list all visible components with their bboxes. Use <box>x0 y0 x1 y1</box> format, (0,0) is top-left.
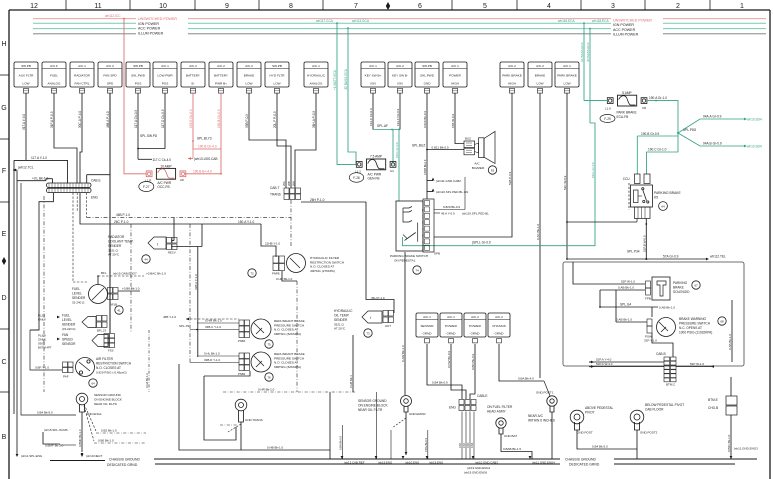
svg-text:33B.D Y-1.0: 33B.D Y-1.0 <box>204 358 220 362</box>
svg-text:53B P-0.9: 53B P-0.9 <box>508 171 512 185</box>
svg-text:1: 1 <box>740 3 744 10</box>
hydraulic filter restriction switch <box>248 224 344 277</box>
svg-text:IGN: IGN <box>397 82 403 86</box>
wire gnd b1 <box>427 344 462 399</box>
svg-text:GRND: GRND <box>494 332 504 336</box>
connector CABLE ENG <box>449 394 487 411</box>
fuse block box 4 FAN SPD SPD <box>98 62 122 93</box>
label 117.A Y-1.0 <box>31 156 47 160</box>
svg-text:0.HA Bk-1.0: 0.HA Bk-1.0 <box>145 373 149 388</box>
svg-text:7: 7 <box>354 3 358 10</box>
buzzer feed wire <box>427 145 464 149</box>
svg-text:0.929 PSIG (-0.45psG): 0.929 PSIG (-0.45psG) <box>96 371 127 375</box>
splice SPL.AF teal <box>373 124 400 164</box>
svg-text:ENG: ENG <box>91 196 98 200</box>
svg-text:ANALOG: ANALOG <box>48 82 61 86</box>
SPB pin wires <box>434 177 489 216</box>
svg-text:SPL.G4: SPL.G4 <box>620 303 631 307</box>
svg-text:GEN-FB: GEN-FB <box>368 177 380 181</box>
wire b3 radiator <box>78 93 82 183</box>
arrow sh111.GND.CAB2 <box>427 178 461 184</box>
svg-text:A/C.2: A/C.2 <box>471 315 479 319</box>
teal bus tap labels right <box>558 19 609 23</box>
svg-text:L1.K: L1.K <box>605 106 611 110</box>
svg-text:0.AC Bk-1.0: 0.AC Bk-1.0 <box>536 223 540 240</box>
fuel level sender PL23 <box>38 314 107 333</box>
svg-text:FAN SPD: FAN SPD <box>103 74 117 78</box>
svg-text:10 AMP: 10 AMP <box>160 164 171 168</box>
svg-text:SW_PWD: SW_PWD <box>131 74 146 78</box>
svg-text:FAN: FAN <box>62 333 69 337</box>
svg-text:PIVOT: PIVOT <box>585 411 595 415</box>
dash vline x131 <box>130 224 132 333</box>
fuel sender labels <box>97 271 166 277</box>
wire 0.AB to PSW <box>616 290 647 322</box>
parking brake solenoid <box>645 277 670 301</box>
connector CAB.E / ENG <box>47 179 101 200</box>
fuse block box 3 RADIATOR FAN CTRL <box>70 62 94 93</box>
svg-text:B-: B- <box>191 82 194 86</box>
wire b5 sw-pwd <box>134 93 138 159</box>
svg-text:HYDRAULIC: HYDRAULIC <box>307 74 326 78</box>
svg-text:F: F <box>2 168 6 175</box>
wire b1 aux-fltr <box>14 93 68 414</box>
wire to ground x370 <box>339 392 428 459</box>
ground ring GND.BAT <box>487 405 532 459</box>
svg-text:B: B <box>2 434 7 441</box>
svg-text:117.C Ck-4.0: 117.C Ck-4.0 <box>153 158 172 162</box>
svg-text:POWER: POWER <box>469 324 481 328</box>
svg-text:(sh11.SPL.ENG: (sh11.SPL.ENG <box>21 454 43 458</box>
svg-text:SPL.BLY3: SPL.BLY3 <box>197 137 212 141</box>
ground box A/C.2 POWER GRND <box>464 313 486 343</box>
svg-text:KEY SW B+: KEY SW B+ <box>365 74 382 78</box>
svg-text:LOW PWR: LOW PWR <box>157 74 173 78</box>
wire wh12.TCL rail <box>13 166 34 455</box>
svg-text:11: 11 <box>94 3 101 10</box>
fuse block box 1 AUX FLTR LOW <box>14 62 38 93</box>
svg-text:SENSOR GROUND: SENSOR GROUND <box>94 393 122 397</box>
svg-text:NEAR OIL FILTR: NEAR OIL FILTR <box>94 402 118 406</box>
wire 0.B61 to ground <box>727 377 758 459</box>
svg-text:wh116.ECA: wh116.ECA <box>558 19 575 23</box>
teal wire to SPB <box>395 129 400 201</box>
wire labels into CAB.T <box>282 181 296 186</box>
svg-text:A4: A4 <box>390 169 394 173</box>
teal branch wh10.SD4 upper <box>678 115 762 134</box>
svg-text:SW.PB: SW.PB <box>422 64 432 68</box>
wire 0.B4 Bk-5.0 <box>577 430 637 459</box>
wire 0.HB ground run <box>179 364 330 459</box>
wire 26H P-1.0 <box>301 198 394 313</box>
wire gnd b3 <box>470 344 475 399</box>
svg-text:PRESSURE SWITCH: PRESSURE SWITCH <box>679 322 711 326</box>
svg-text:(sh10.GND.CAB3: (sh10.GND.CAB3 <box>475 461 498 465</box>
svg-text:52C W-0.9: 52C W-0.9 <box>563 175 567 190</box>
svg-text:52P.B W-0.9: 52P.B W-0.9 <box>642 235 646 252</box>
svg-text:ILLUM POWER: ILLUM POWER <box>613 33 639 37</box>
svg-text:BATTERY: BATTERY <box>186 74 200 78</box>
svg-text:BTM.C: BTM.C <box>666 383 676 387</box>
teal wire to splice P8G <box>677 100 679 133</box>
svg-text:A/C.2: A/C.2 <box>508 64 516 68</box>
svg-text:DEDICATED GRND: DEDICATED GRND <box>569 463 600 467</box>
svg-text:SENSOR GROUND: SENSOR GROUND <box>358 399 387 403</box>
fuse block box 15 POWER HIGH <box>443 62 467 93</box>
svg-text:(sh110.SPL.PED.BL.GN: (sh110.SPL.PED.BL.GN <box>436 190 468 194</box>
svg-text:0.AB Bk-1.0: 0.AB Bk-1.0 <box>728 334 732 350</box>
svg-text:GND.POST1: GND.POST1 <box>536 391 554 395</box>
svg-text:ONLY: ONLY <box>38 318 46 322</box>
svg-text:GND.BAT: GND.BAT <box>504 434 517 438</box>
svg-text:PNB2: PNB2 <box>238 372 246 376</box>
svg-text:67: 67 <box>694 284 698 288</box>
svg-text:+1 BATT-ECA: +1 BATT-ECA <box>333 69 337 90</box>
svg-text:SPL.BUZ: SPL.BUZ <box>412 144 425 148</box>
svg-text:190.L Gr-0.9: 190.L Gr-0.9 <box>395 142 399 158</box>
svg-text:wh118.ECA: wh118.ECA <box>592 19 609 23</box>
boundary box right <box>563 262 744 366</box>
svg-text:31T.A Y-9.0: 31T.A Y-9.0 <box>22 114 26 130</box>
dash wire 46B P-1.0 <box>87 213 291 217</box>
wire 0.HR below switch <box>276 271 297 392</box>
svg-text:GND: GND <box>424 82 432 86</box>
ground ring GND.POST1 near A/C <box>528 381 557 459</box>
svg-text:SW.PB: SW.PB <box>133 64 143 68</box>
svg-text:wh10.SD4: wh10.SD4 <box>747 145 762 149</box>
svg-text:75: 75 <box>267 343 271 347</box>
svg-text:193.C Ck-0.9: 193.C Ck-0.9 <box>369 108 373 126</box>
wire b16 park-brake-high <box>434 93 512 237</box>
fuse block box 10 HYD FLTR LOW <box>265 62 289 93</box>
svg-text:(sh15.OAB.ENG7: (sh15.OAB.ENG7 <box>113 272 137 276</box>
svg-text:68: 68 <box>720 320 724 324</box>
svg-text:BATTERY: BATTERY <box>214 74 228 78</box>
svg-text:t: t <box>157 243 158 247</box>
teal drop wh113.GCA <box>344 28 356 164</box>
svg-text:0.AB Bk-1.0: 0.AB Bk-1.0 <box>616 318 632 322</box>
svg-text:LOW: LOW <box>273 82 280 86</box>
grid column labels top <box>30 0 744 10</box>
svg-text:CHASSIS GROUND: CHASSIS GROUND <box>109 458 140 462</box>
svg-text:BELOW PEDESTAL PIVOT: BELOW PEDESTAL PIVOT <box>645 403 684 407</box>
svg-text:2: 2 <box>676 3 680 10</box>
brake warning pressure switch <box>645 318 676 339</box>
svg-text:SPL.X9: SPL.X9 <box>179 324 190 328</box>
svg-text:BFL.23: BFL.23 <box>97 329 106 333</box>
svg-text:FUEL: FUEL <box>72 287 80 291</box>
fuse block box 11 HYDRAULIC ANALOG <box>304 62 328 93</box>
svg-text:PWR B+: PWR B+ <box>215 82 227 86</box>
redundant brake pressure switch PNB2 <box>238 352 305 381</box>
svg-text:UNSWITCHED POWER: UNSWITCHED POWER <box>613 19 652 23</box>
svg-text:(sh10.ENG: (sh10.ENG <box>405 461 420 465</box>
wire 0.B4 Bk-9.0 <box>21 183 76 415</box>
svg-text:wh117.CCA: wh117.CCA <box>316 19 334 23</box>
unswitched power bus (red) <box>33 18 766 20</box>
svg-text:AUX FLTR: AUX FLTR <box>19 74 34 78</box>
fan speed sensor <box>38 333 115 353</box>
wire 33B.A vertical <box>194 247 198 358</box>
svg-text:LEVEL: LEVEL <box>62 318 72 322</box>
wire relay to b18 net <box>566 219 637 223</box>
svg-text:ON FUEL FILTER: ON FUEL FILTER <box>487 405 513 409</box>
svg-text:F-29: F-29 <box>604 117 611 121</box>
svg-text:FUEL: FUEL <box>62 314 70 318</box>
svg-text:PARKING BRAKE: PARKING BRAKE <box>654 191 681 195</box>
svg-text:IGN POWER: IGN POWER <box>138 22 159 26</box>
svg-text:A/C.1: A/C.1 <box>423 315 431 319</box>
svg-text:A/C.2: A/C.2 <box>245 64 253 68</box>
svg-text:0.B4 Bk-0.9: 0.B4 Bk-0.9 <box>432 381 448 385</box>
svg-text:TRANS: TRANS <box>270 193 281 197</box>
svg-text:0.BJ: 0.BJ <box>463 442 466 448</box>
wire b4 fan-spd <box>87 93 110 333</box>
wire 15B.A / 26C <box>80 193 261 224</box>
svg-text:PAF: PAF <box>63 375 69 379</box>
svg-text:193.E Ck-0.9: 193.E Ck-0.9 <box>189 109 193 128</box>
svg-text:F-26: F-26 <box>353 176 360 180</box>
svg-text:488.A P-4.0: 488.A P-4.0 <box>106 111 110 128</box>
svg-text:LOW: LOW <box>536 82 543 86</box>
svg-text:SPEED: SPEED <box>62 338 74 342</box>
svg-text:0.BH Bk-0.9: 0.BH Bk-0.9 <box>339 435 343 450</box>
wire b10 hyd-fltr <box>273 93 291 188</box>
svg-text:FPB: FPB <box>645 297 651 301</box>
svg-text:CAB.E: CAB.E <box>91 179 101 183</box>
air filter restriction switch <box>30 330 132 387</box>
svg-text:0.HL Bk-1.0: 0.HL Bk-1.0 <box>204 352 220 356</box>
svg-text:33B.C Y-1.0: 33B.C Y-1.0 <box>205 325 221 329</box>
svg-text:RADIATOR: RADIATOR <box>74 74 90 78</box>
wire b12 key-sw-b+ <box>369 93 373 130</box>
svg-text:CHASSIS GROUND: CHASSIS GROUND <box>565 458 596 462</box>
svg-text:0.B2 Bk-1.0: 0.B2 Bk-1.0 <box>101 429 117 433</box>
wire gnd b4 chassis <box>499 344 544 381</box>
svg-text:64: 64 <box>661 205 665 209</box>
svg-text:PARKING: PARKING <box>673 281 688 285</box>
svg-text:wh113.GCA: wh113.GCA <box>352 19 370 23</box>
teal drop A1-BASS-ECA <box>580 22 585 100</box>
svg-text:CABLE: CABLE <box>477 394 487 398</box>
svg-text:SENDER: SENDER <box>108 244 122 248</box>
connector CAB.B / BTM.C <box>656 352 676 387</box>
fuse block box 18 PARK BRAKE LOW <box>555 62 579 93</box>
svg-text:190.L Gr-0.9: 190.L Gr-0.9 <box>591 162 595 178</box>
svg-text:SPB: SPB <box>434 252 440 256</box>
svg-text:0.821 Bk-0.9: 0.821 Bk-0.9 <box>432 145 449 149</box>
svg-text:GND.ENG1: GND.ENG1 <box>86 412 102 416</box>
svg-text:SENDER: SENDER <box>72 296 86 300</box>
offpage arrow wh13.USS.CAB <box>188 149 218 161</box>
svg-text:BRAKE: BRAKE <box>673 286 684 290</box>
svg-text:LOW: LOW <box>563 82 570 86</box>
svg-text:KEY SW B-: KEY SW B- <box>392 74 408 78</box>
fuse block box 17 BRAKE LOW <box>528 62 552 93</box>
wire 0.B2B down <box>423 150 427 200</box>
svg-text:IGN: IGN <box>370 82 376 86</box>
wire 0.HB vertical 353 <box>349 335 353 392</box>
fuse block box 6 LOW PWR POS <box>153 62 177 93</box>
dash 0.HA vertical <box>145 330 149 392</box>
wire 0.HB from PNB2 <box>204 371 250 376</box>
fuse F-26 7.5AMP <box>355 155 396 174</box>
svg-text:190.B Ck-0.9: 190.B Ck-0.9 <box>217 109 221 128</box>
wire b18 park-brake-low <box>563 93 567 259</box>
svg-text:0.BD: 0.BD <box>467 442 470 448</box>
svg-text:52P W-1.0: 52P W-1.0 <box>621 280 635 284</box>
fuse F-29 labels <box>600 111 637 123</box>
svg-text:73: 73 <box>366 332 370 336</box>
svg-text:SW.PB: SW.PB <box>272 64 282 68</box>
svg-text:(sh19.ENG: (sh19.ENG <box>378 461 393 465</box>
svg-text:190.C Gr-1.0: 190.C Gr-1.0 <box>648 148 667 152</box>
svg-text:0.HR Bk-1.0: 0.HR Bk-1.0 <box>258 388 275 392</box>
svg-text:(sh11.GND.ENG3: (sh11.GND.ENG3 <box>734 447 758 451</box>
svg-text:BSTM 4PT: BSTM 4PT <box>38 346 52 350</box>
svg-text:C: C <box>1 359 6 366</box>
svg-text:0.AB Bk-1.0: 0.AB Bk-1.0 <box>618 286 634 290</box>
chassis ground bus <box>50 454 757 467</box>
wire b2 fuel <box>50 93 77 183</box>
svg-text:52P.A Y-4.0: 52P.A Y-4.0 <box>596 358 612 362</box>
connector BTM.E CHG.B <box>708 396 737 415</box>
ground ring GND.EMOR <box>358 396 426 456</box>
svg-text:46B P-1.0: 46B P-1.0 <box>116 213 130 217</box>
svg-text:LOW: LOW <box>22 82 29 86</box>
svg-text:(sh19.NECT: (sh19.NECT <box>86 454 103 458</box>
wire 0.AB right side <box>728 300 732 362</box>
wire 52P.A Y-4.0 <box>589 358 664 364</box>
svg-text:36H P-1.0: 36H P-1.0 <box>371 296 385 300</box>
svg-text:ILLUM POWER: ILLUM POWER <box>138 31 164 35</box>
svg-text:0.B4 Bk-5.0: 0.B4 Bk-5.0 <box>592 445 608 449</box>
svg-text:9MPSIG (62634PA): 9MPSIG (62634PA) <box>274 332 301 336</box>
svg-text:0.HB Bk-1.0: 0.HB Bk-1.0 <box>267 446 284 450</box>
ground ring GND.POST2 <box>630 403 684 435</box>
svg-text:0.HB Bk-1: 0.HB Bk-1 <box>349 375 353 388</box>
fuse block box 9 BRAKE LOW <box>237 62 261 93</box>
svg-text:POS: POS <box>135 82 142 86</box>
svg-text:ON PEDESTAL: ON PEDESTAL <box>394 259 416 263</box>
svg-text:117.A Y-1.0: 117.A Y-1.0 <box>31 156 47 160</box>
fuse block box 13 KEY SW B- IGN <box>388 62 412 93</box>
svg-text:BUZ: BUZ <box>465 137 471 141</box>
svg-text:E: E <box>2 231 7 238</box>
svg-text:PNFB: PNFB <box>272 272 280 276</box>
wire b6 low-pwr <box>138 93 165 149</box>
svg-text:0.B61 Bk-1.0: 0.B61 Bk-1.0 <box>727 434 731 452</box>
label +0.L BK-1.0 <box>17 177 53 184</box>
svg-text:0.BAB Bk-1.5: 0.BAB Bk-1.5 <box>503 447 521 451</box>
svg-text:+0.B8 Bk-1.0: +0.B8 Bk-1.0 <box>122 287 140 291</box>
svg-text:GND.TRANS: GND.TRANS <box>245 418 263 422</box>
svg-text:33B.A Y-1.9: 33B.A Y-1.9 <box>194 274 198 290</box>
svg-text:POWER: POWER <box>449 74 461 78</box>
teal drop JD-BASS-ECA <box>586 28 591 123</box>
svg-text:JD BASS-ECA: JD BASS-ECA <box>344 68 348 90</box>
svg-text:HIGH: HIGH <box>508 82 516 86</box>
svg-text:117.A Ck-0.9: 117.A Ck-0.9 <box>134 110 138 128</box>
svg-text:ACC POWER: ACC POWER <box>138 26 161 30</box>
svg-text:wh10.SD4: wh10.SD4 <box>747 118 762 122</box>
svg-text:HIGH: HIGH <box>451 82 459 86</box>
parking brake switch SPB <box>390 199 440 274</box>
wires CABLE ENG to ground <box>459 412 474 460</box>
svg-text:SENDER: SENDER <box>334 318 348 322</box>
svg-text:0.B4: 0.B4 <box>459 442 462 448</box>
fuse F-27 10AMP (red) <box>145 164 186 182</box>
svg-text:ECA-FB: ECA-FB <box>617 115 629 119</box>
svg-text:A/C.1: A/C.1 <box>369 64 377 68</box>
wire b11 hydraulic <box>295 93 316 188</box>
svg-text:0.BMF Bk-2.0: 0.BMF Bk-2.0 <box>45 444 64 448</box>
svg-text:26H: 26H <box>292 181 296 186</box>
svg-text:SENSOR: SENSOR <box>62 342 76 346</box>
wire b13 key-sw-b- <box>396 93 400 130</box>
svg-text:0.AB Bk-1.0: 0.AB Bk-1.0 <box>659 306 675 310</box>
svg-text:NEAR A/C: NEAR A/C <box>528 414 544 418</box>
wire 0.AW to GND.EMOR <box>401 252 405 395</box>
splice SPL.P34 <box>627 250 647 261</box>
svg-text:NEAR OIL FILTR: NEAR OIL FILTR <box>358 408 383 412</box>
svg-text:32P Y-1.0: 32P Y-1.0 <box>644 339 657 343</box>
svg-text:0.BG Bk-0.9: 0.BG Bk-0.9 <box>424 437 428 452</box>
svg-text:RECV: RECV <box>168 251 176 255</box>
svg-text:0.CW Bk-0.9: 0.CW Bk-0.9 <box>447 351 451 368</box>
bus labels right <box>611 17 663 38</box>
svg-text:3: 3 <box>611 3 615 10</box>
relay K5 labels <box>654 191 681 210</box>
svg-text:SW.PB: SW.PB <box>21 64 31 68</box>
svg-text:(sh19.GND.ENG6: (sh19.GND.ENG6 <box>464 470 488 474</box>
fuse block box 7 BATTERY B- <box>181 62 205 93</box>
svg-text:190.A Gr-1.0: 190.A Gr-1.0 <box>649 96 667 100</box>
svg-text:GRND: GRND <box>470 332 480 336</box>
illum power bus <box>33 33 766 35</box>
svg-text:31F.A P-0.9: 31F.A P-0.9 <box>50 111 54 128</box>
svg-text:F-27: F-27 <box>143 185 150 189</box>
svg-text:SPL.SW.PD: SPL.SW.PD <box>140 134 158 138</box>
svg-text:ENG: ENG <box>449 406 456 410</box>
ground box A/C.1 POWER GRND <box>440 313 462 343</box>
svg-text:GRND: GRND <box>422 332 432 336</box>
svg-text:0.AW Bk-1.0: 0.AW Bk-1.0 <box>401 345 405 362</box>
svg-text:193.F Ck-0.9: 193.F Ck-0.9 <box>396 108 400 126</box>
svg-text:41: 41 <box>117 309 121 313</box>
svg-text:0.B0 Bk-1.0: 0.B0 Bk-1.0 <box>98 439 114 443</box>
svg-text:A/C.F: A/C.F <box>50 64 58 68</box>
svg-text:117.D Ck-0.9: 117.D Ck-0.9 <box>161 109 165 128</box>
svg-text:PARK BRAKE: PARK BRAKE <box>502 74 522 78</box>
svg-text:ON ENGINE BLOCK: ON ENGINE BLOCK <box>94 398 122 402</box>
svg-text:44: 44 <box>144 258 148 262</box>
svg-text:(sh119.SPL.PED.BL: (sh119.SPL.PED.BL <box>462 212 489 216</box>
svg-text:RADIATOR: RADIATOR <box>108 235 125 239</box>
svg-text:4: 4 <box>547 3 551 10</box>
ground box A/C.2 CHASSIS GRND <box>488 313 510 343</box>
svg-text:SPD: SPD <box>107 82 114 86</box>
svg-text:72: 72 <box>250 272 254 276</box>
svg-text:SW_PWD: SW_PWD <box>420 74 435 78</box>
teal branch wh10.SD4 lower <box>678 133 762 149</box>
svg-text:GND.POST: GND.POST <box>577 431 593 435</box>
svg-text:CCU: CCU <box>623 177 631 181</box>
svg-text:N.C. OPENS AT: N.C. OPENS AT <box>679 326 702 330</box>
bus labels left <box>136 15 188 36</box>
redundant brake pressure switch PNB1 <box>238 319 305 348</box>
fuse F-29 5AMP <box>605 91 647 111</box>
